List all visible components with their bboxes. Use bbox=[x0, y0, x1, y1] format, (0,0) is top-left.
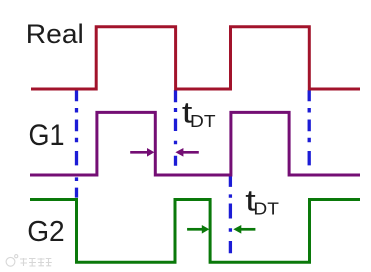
svg-text:Real: Real bbox=[26, 19, 84, 49]
svg-text:G2: G2 bbox=[27, 216, 64, 248]
svg-text:DT: DT bbox=[190, 111, 216, 131]
svg-text:DT: DT bbox=[253, 198, 279, 218]
svg-text:G1: G1 bbox=[29, 119, 65, 152]
